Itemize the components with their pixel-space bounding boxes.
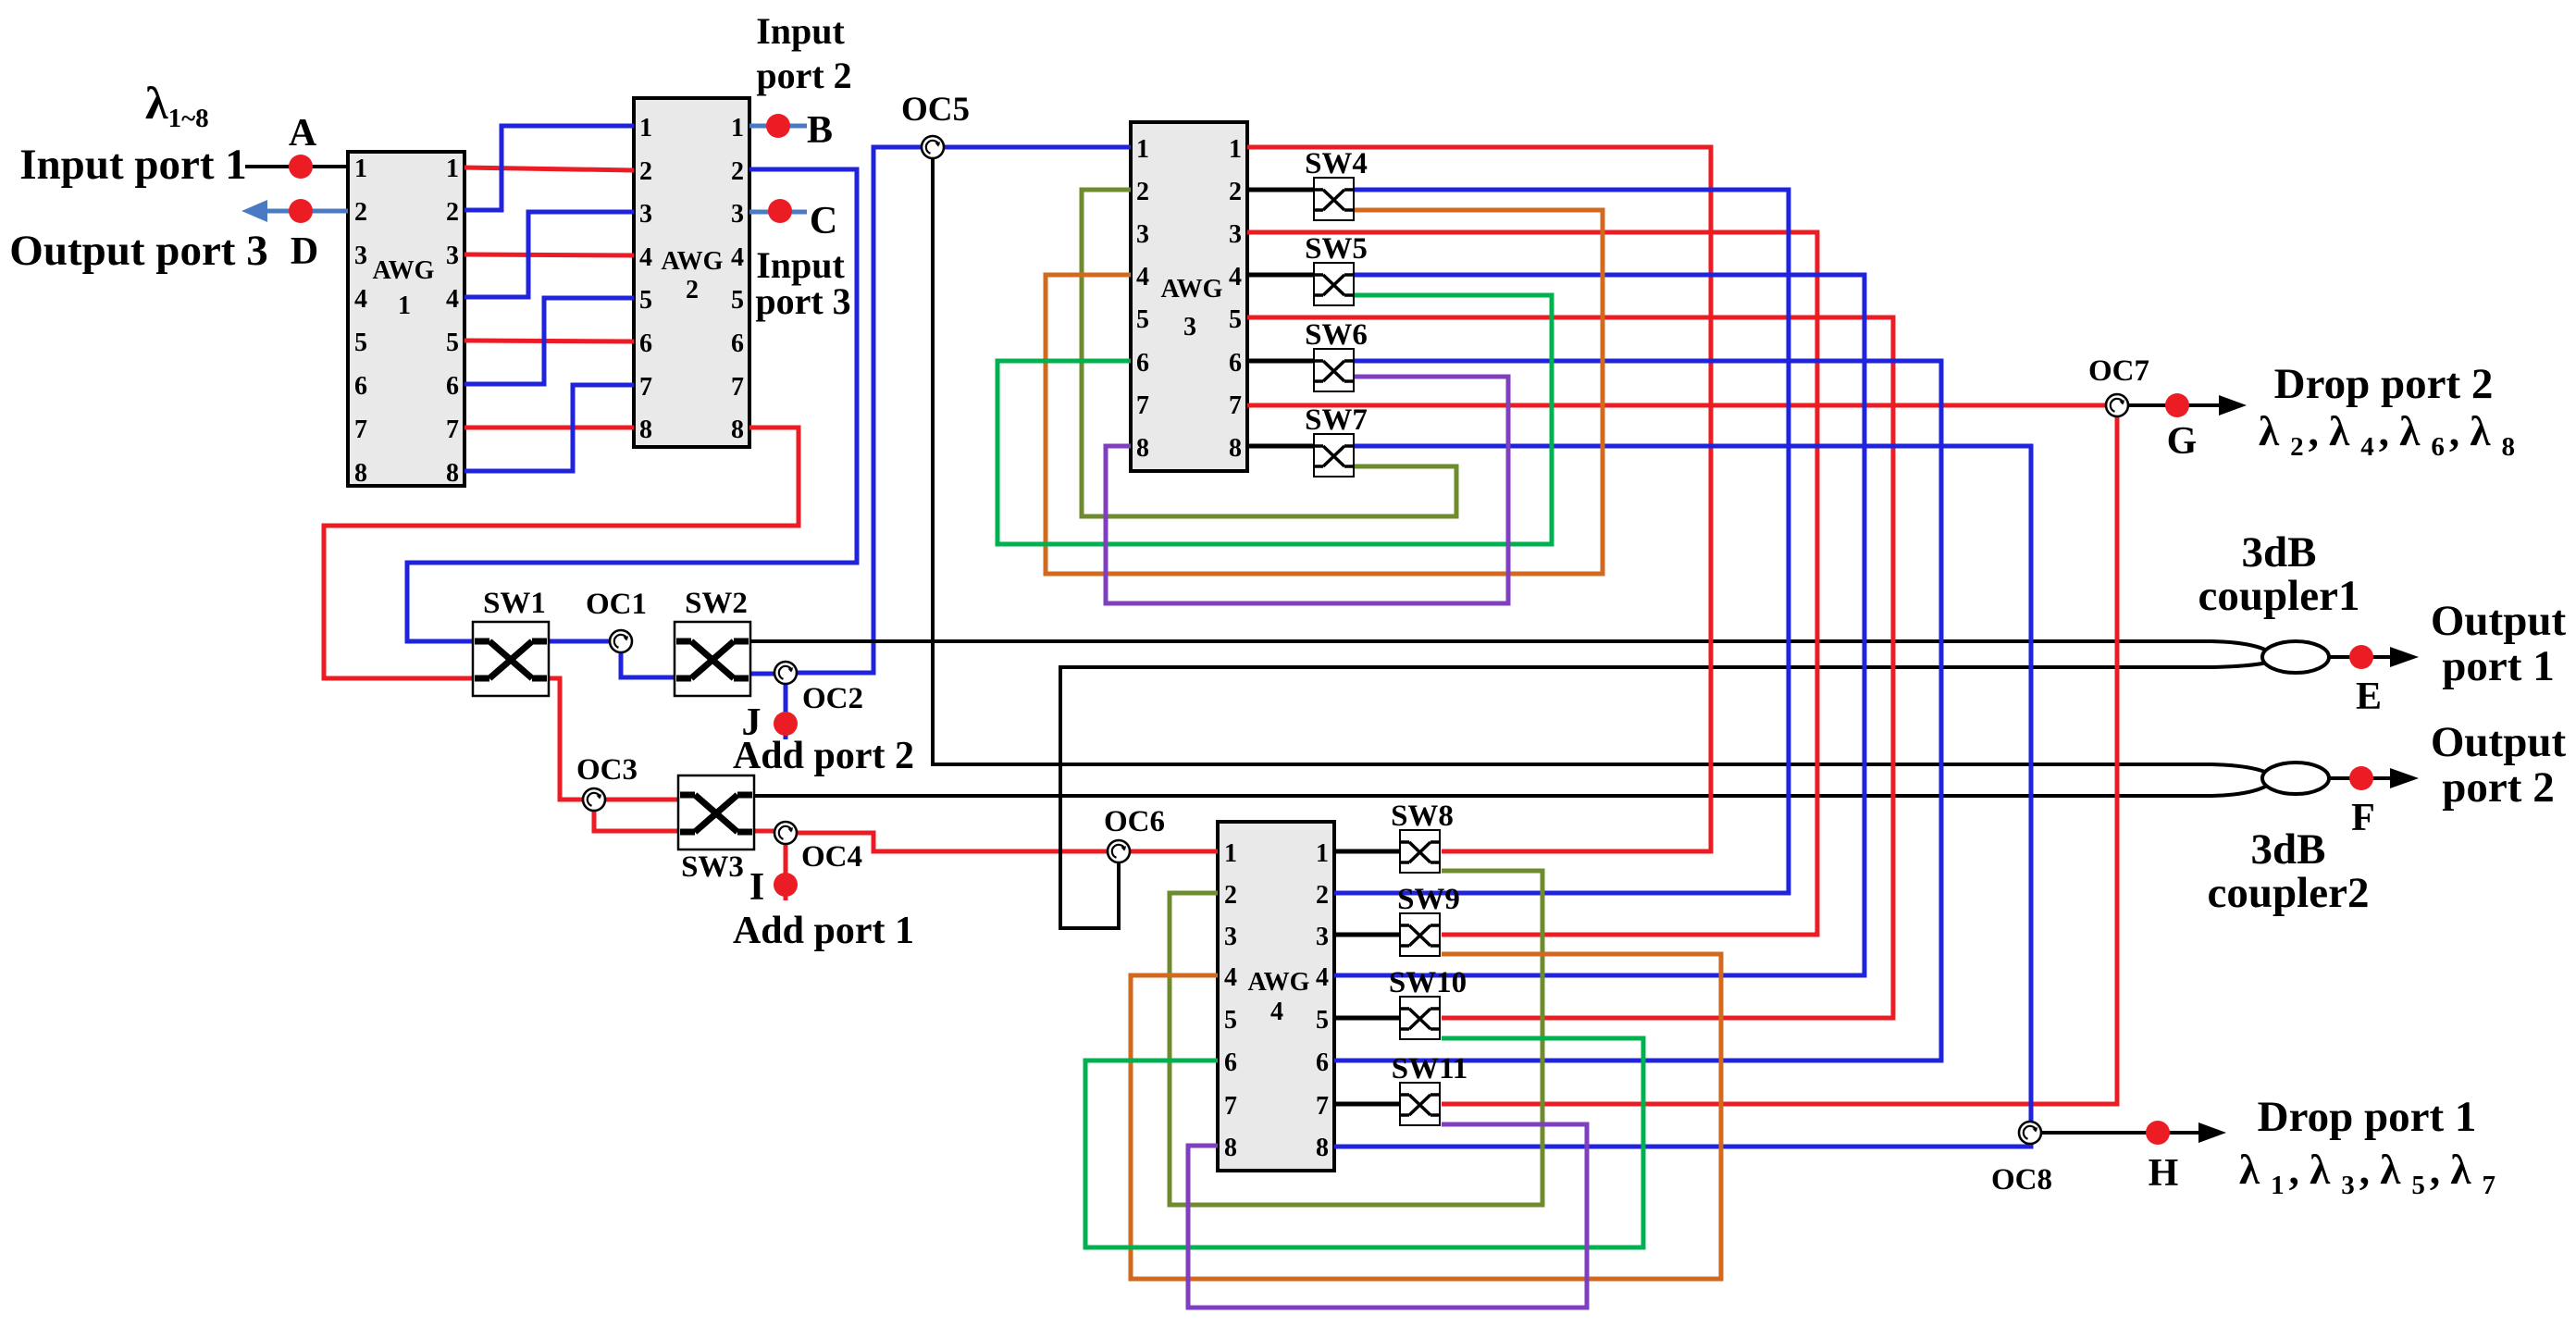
svg-text:SW2: SW2 [685,587,748,620]
svg-text:AWG: AWG [373,256,435,285]
svg-text:SW11: SW11 [1392,1052,1468,1085]
svg-text:B: B [807,109,833,152]
svg-text:3: 3 [446,242,459,270]
node B dot [766,114,790,138]
switch SW7 [1314,434,1354,477]
3dB coupler2 ellipse [2262,763,2329,794]
node G dot [2165,393,2189,417]
svg-text:7: 7 [1136,391,1149,420]
svg-text:OC3: OC3 [576,753,638,787]
svg-text:Input port 1: Input port 1 [19,141,247,189]
svg-text:3: 3 [639,200,652,229]
switch SW4 [1314,178,1354,220]
arrow output port 1 [2390,647,2419,667]
svg-text:1: 1 [1136,135,1149,164]
svg-text:7: 7 [1229,391,1242,420]
node I dot [774,873,798,897]
svg-text:7: 7 [1224,1092,1237,1121]
wire AWG3.R8 to SW7 [1247,444,1314,449]
wire add port 1 stub below OC4 [784,845,788,900]
switch SW2 [675,622,750,696]
switch SW8 [1400,830,1440,873]
svg-text:F: F [2351,797,2375,839]
svg-text:4: 4 [354,285,367,314]
wire AWG1.R4-AWG2.L3 [464,212,634,297]
svg-text:6: 6 [1136,349,1149,378]
wire AWG1.R5-AWG2.L6 [464,341,634,341]
wire OC3 to SW3 upper input [605,798,678,802]
AWG 2 [634,98,749,447]
svg-text:E: E [2356,676,2382,718]
svg-text:coupler2: coupler2 [2208,869,2370,917]
svg-text:1: 1 [639,114,652,143]
svg-text:SW7: SW7 [1305,403,1368,437]
svg-text:3: 3 [1316,923,1329,951]
wire AWG4.R8 to OC8 bottom [1334,1145,2031,1147]
svg-text:D: D [291,230,318,273]
svg-text:Output port 3: Output port 3 [9,227,267,275]
wire AWG1.R3-AWG2.L4 [464,254,634,255]
circulator OC2 [774,662,797,684]
wire AWG2.R8 to SW1 lower input [324,428,799,678]
svg-text:5: 5 [446,329,459,357]
svg-text:7: 7 [731,373,744,402]
svg-text:7: 7 [639,373,652,402]
arrow drop port 2 [2219,395,2247,415]
wire SW2 blue out to OC2 [749,672,774,676]
node A dot [289,155,313,179]
svg-text:coupler1: coupler1 [2198,572,2360,620]
wire AWG3.R2 to SW4 [1247,188,1314,192]
svg-text:6: 6 [731,329,744,358]
node E dot [2349,645,2373,669]
svg-text:8: 8 [731,415,744,444]
svg-text:8: 8 [1224,1134,1237,1162]
svg-text:3: 3 [1224,923,1237,951]
switch SW3 [678,775,754,850]
svg-text:6: 6 [1316,1048,1329,1077]
svg-text:3: 3 [731,200,744,229]
wire AWG3.R6 to SW6 [1247,359,1314,364]
svg-text:SW6: SW6 [1305,318,1368,352]
svg-text:H: H [2149,1152,2179,1195]
svg-text:Drop port 1: Drop port 1 [2258,1093,2477,1141]
svg-text:OC8: OC8 [1991,1163,2052,1197]
wire AWG3.R4 to SW5 [1247,273,1314,278]
wire AWG4.R3 to SW9 [1334,933,1400,937]
wire SW10 green loop to AWG4.L6 [1085,1038,1643,1247]
svg-text:8: 8 [446,459,459,488]
switch SW10 [1400,997,1440,1039]
svg-text:port 1: port 1 [2442,642,2554,690]
circulator OC7 [2106,394,2128,416]
svg-text:2: 2 [731,157,744,186]
node F dot [2349,766,2373,790]
svg-text:1: 1 [1229,135,1242,164]
svg-text:SW9: SW9 [1397,883,1460,916]
wire OC6 drop path to coupler1 bottom [1060,663,2267,928]
svg-text:2: 2 [1136,178,1149,206]
wire output port 3 arrow line [266,209,348,214]
arrow drop port 1 [2198,1122,2226,1143]
switch SW9 [1400,913,1440,956]
circulator OC6 [1108,840,1130,862]
svg-text:Input: Input [756,10,845,52]
AWG 1 [348,152,464,488]
arrow output port 3 [241,200,267,222]
svg-text:Add port 2: Add port 2 [733,735,914,777]
svg-text:G: G [2167,420,2198,463]
svg-text:AWG: AWG [662,247,724,276]
AWG 4 [1218,822,1334,1171]
svg-text:1: 1 [1224,839,1237,868]
svg-text:5: 5 [1136,305,1149,334]
svg-text:SW3: SW3 [681,850,744,884]
svg-text:Output: Output [2431,597,2567,645]
svg-text:OC2: OC2 [802,682,863,715]
svg-text:6: 6 [354,372,367,401]
wire SW11 purple loop to AWG4.L8 [1188,1124,1587,1308]
svg-text:AWG: AWG [1248,968,1310,997]
svg-text:2: 2 [1224,881,1237,910]
wire SW3 red out through OC4 [751,829,774,834]
svg-text:3dB: 3dB [2242,528,2317,577]
wire OC3 branch to SW3 lower input [594,811,678,831]
svg-text:2: 2 [639,157,652,186]
wire AWG3.R3 to SW9 red output [1247,232,1817,935]
wire SW6 blue out to AWG4.R6 [1334,361,1941,1060]
svg-text:4: 4 [1136,263,1149,291]
svg-text:OC1: OC1 [586,588,647,621]
svg-text:7: 7 [1316,1092,1329,1121]
wire AWG4.R5 to SW10 [1334,1016,1400,1021]
svg-text:6: 6 [639,329,652,358]
wire SW9 orange loop to AWG4.L4 [1131,954,1721,1279]
wire AWG1.R8-AWG2.L7 [464,385,634,471]
circulator OC3 [583,788,605,811]
wire coupler1 output [2329,655,2392,659]
svg-text:5: 5 [1229,305,1242,334]
circulator OC4 [774,822,797,844]
svg-text:1: 1 [1316,839,1329,868]
wire AWG2.R2 to SW1 upper input [407,169,857,641]
svg-text:8: 8 [1316,1134,1329,1162]
svg-text:4: 4 [1224,963,1237,992]
wire B stub [749,124,807,129]
svg-text:OC4: OC4 [801,840,862,874]
svg-text:OC5: OC5 [901,91,970,129]
svg-text:port 2: port 2 [2442,763,2554,812]
wire AWG1.R6-AWG2.L5 [464,298,634,384]
svg-text:2: 2 [446,198,459,227]
wire SW7 olive loop to AWG3.L2 [1082,190,1456,516]
svg-text:7: 7 [354,415,367,444]
svg-text:3: 3 [1183,313,1196,341]
svg-text:SW5: SW5 [1305,232,1368,266]
wire SW8 olive loop to AWG4.L2 [1170,871,1542,1205]
wire AWG4.R1 to SW8 [1334,850,1400,854]
svg-text:5: 5 [1316,1006,1329,1035]
wire AWG3.R1 to SW8 red output [1247,147,1711,851]
svg-text:2: 2 [686,276,699,304]
wire SW1 red out to OC3 [549,678,583,800]
svg-text:8: 8 [1229,434,1242,463]
circulator OC1 [610,630,632,652]
svg-text:7: 7 [446,415,459,444]
svg-text:6: 6 [1229,349,1242,378]
wire AWG3.R7 to OC7 [1247,403,2106,408]
svg-text:6: 6 [446,372,459,401]
circulator OC5 [922,136,944,158]
svg-text:5: 5 [731,286,744,315]
svg-text:A: A [289,112,317,155]
svg-text:4: 4 [1229,263,1242,291]
svg-text:SW4: SW4 [1305,147,1368,180]
wire SW1 blue out through OC1 to SW2 [549,639,611,644]
svg-text:2: 2 [1316,881,1329,910]
wire OC5 drop path to coupler2 top [933,158,2267,773]
svg-text:3: 3 [354,242,367,270]
wire AWG1.R1-AWG2.L2 [464,167,634,170]
svg-text:Drop port 2: Drop port 2 [2274,360,2494,408]
wire OC7 down to SW11 red output [1442,416,2117,1104]
svg-text:5: 5 [1224,1006,1237,1035]
svg-text:AWG: AWG [1161,275,1223,304]
wire SW2 black out to coupler1 top [749,641,2267,651]
svg-text:4: 4 [1316,963,1329,992]
node J dot [774,712,798,736]
svg-text:1: 1 [446,155,459,183]
AWG 3 [1131,122,1247,471]
svg-text:3: 3 [1229,220,1242,249]
wire OC2 up to OC5 and AWG3.L1 [798,147,921,673]
switch SW1 [473,622,549,696]
wire SW7 blue out to OC8 top [1354,446,2031,1121]
svg-text:1: 1 [354,155,367,183]
wire SW6 purple loop to AWG3.L8 [1106,377,1508,603]
svg-text:3: 3 [1136,220,1149,249]
svg-text:4: 4 [1270,998,1283,1026]
svg-text:SW8: SW8 [1391,800,1454,833]
switch SW11 [1400,1083,1440,1125]
3dB coupler1 ellipse [2262,641,2329,673]
wire AWG3.R5 to SW10 red output [1247,317,1893,1018]
svg-text:Add port 1: Add port 1 [733,910,914,952]
circulator OC8 [2019,1122,2041,1144]
svg-text:port 2: port 2 [756,55,851,96]
node H dot [2146,1121,2170,1145]
svg-text:3dB: 3dB [2251,825,2326,874]
svg-text:8: 8 [354,459,367,488]
svg-text:4: 4 [446,285,459,314]
svg-text:port 3: port 3 [755,280,850,322]
wire input port 1 to AWG1.L1 [245,165,348,168]
wire OC8 output to drop port 1 [2042,1131,2200,1135]
wire SW4 blue out to AWG4.R2 [1334,190,1789,893]
svg-text:C: C [810,200,837,242]
svg-text:Output: Output [2431,718,2567,766]
wire C stub [749,210,807,215]
svg-text:6: 6 [1224,1048,1237,1077]
svg-text:5: 5 [639,286,652,315]
switch SW5 [1314,263,1354,305]
wire SW4 orange loop to AWG3.L4 [1046,210,1603,574]
svg-text:I: I [749,866,764,909]
svg-text:8: 8 [639,415,652,444]
wire AWG4.R7 to SW11 [1334,1102,1400,1107]
svg-text:4: 4 [639,243,652,272]
svg-text:SW1: SW1 [483,587,546,620]
svg-text:5: 5 [354,329,367,357]
wire SW5 green loop to AWG3.L6 [997,295,1552,544]
svg-text:2: 2 [1229,178,1242,206]
wire SW5 blue out to AWG4.R4 [1334,275,1864,975]
wire AWG1.R7-AWG2.L8 [464,426,634,430]
node D dot [289,199,313,223]
wire add port 2 stub below OC2 [784,685,788,739]
arrow output port 2 [2390,768,2419,788]
wire AWG1.R2-AWG2.L1 [464,126,634,210]
wire SW3 black out to coupler2 bottom [751,786,2267,796]
wire OC4 to OC6 to AWG4.L1 [798,833,1107,851]
node C dot [768,199,792,223]
svg-text:2: 2 [354,198,367,227]
svg-text:OC7: OC7 [2088,354,2149,388]
svg-text:1: 1 [398,291,411,320]
svg-text:4: 4 [731,243,744,272]
svg-text:OC6: OC6 [1104,805,1165,838]
svg-text:1: 1 [731,114,744,143]
switch SW6 [1314,349,1354,391]
wire coupler2 output [2329,776,2392,780]
svg-text:SW10: SW10 [1389,966,1467,999]
wire OC7 output to drop port 2 [2128,403,2221,407]
svg-text:8: 8 [1136,434,1149,463]
